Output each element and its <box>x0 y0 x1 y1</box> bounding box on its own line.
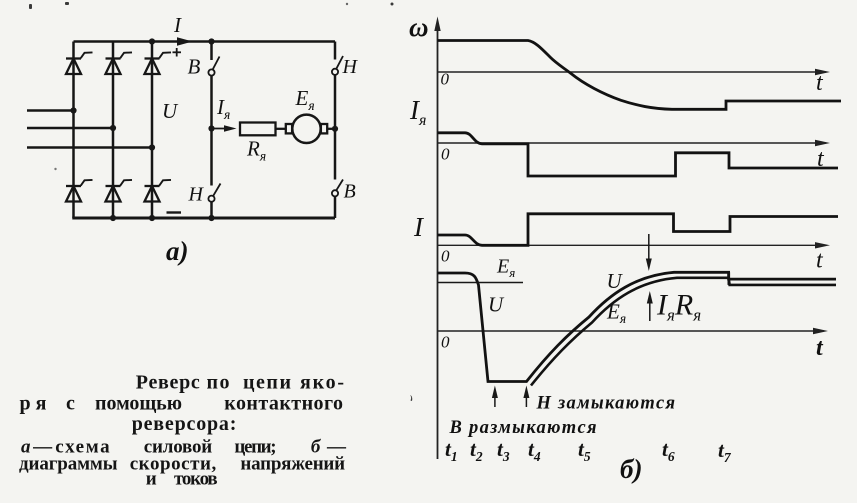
svg-text:t4: t4 <box>528 437 541 464</box>
svg-text:t2: t2 <box>470 437 483 464</box>
svg-text:t: t <box>816 335 824 361</box>
svg-text:яко-: яко- <box>300 372 344 394</box>
svg-text:б): б) <box>620 454 642 484</box>
svg-text:B: B <box>188 55 201 79</box>
svg-text:U: U <box>607 269 624 293</box>
svg-text:Iя: Iя <box>216 95 230 122</box>
svg-text:реверсора:: реверсора: <box>132 413 237 435</box>
svg-text:токов: токов <box>174 468 218 489</box>
svg-text:Eя: Eя <box>295 86 315 113</box>
svg-text:t5: t5 <box>578 437 591 464</box>
svg-text:Реверс: Реверс <box>136 372 200 394</box>
svg-text:0: 0 <box>441 70 450 89</box>
svg-text:Н: Н <box>188 184 205 206</box>
svg-text:В размыкаются: В размыкаются <box>449 418 597 438</box>
svg-text:ря: ря <box>20 393 47 415</box>
svg-text:и: и <box>146 468 157 489</box>
svg-text:0: 0 <box>441 145 450 164</box>
svg-text:Iя: Iя <box>409 95 426 129</box>
svg-text:U: U <box>488 293 505 317</box>
svg-text:напряжений: напряжений <box>240 453 345 474</box>
svg-text:I: I <box>173 13 182 37</box>
svg-text:U: U <box>162 99 179 123</box>
svg-text:t: t <box>816 70 824 96</box>
svg-text:t3: t3 <box>497 437 510 464</box>
svg-text:диаграммы: диаграммы <box>19 453 118 474</box>
svg-text:Н замыкаются: Н замыкаются <box>536 394 676 414</box>
svg-text:Eя: Eя <box>606 300 626 327</box>
svg-text:Eя: Eя <box>496 256 515 281</box>
svg-text:ω: ω <box>409 12 429 42</box>
svg-text:0: 0 <box>441 333 450 352</box>
svg-text:Н: Н <box>342 56 359 78</box>
svg-text:0: 0 <box>441 247 450 266</box>
svg-text:по: по <box>207 372 230 394</box>
svg-text:помощью: помощью <box>95 393 182 415</box>
svg-text:I: I <box>413 212 425 242</box>
svg-text:IяRя: IяRя <box>656 289 701 325</box>
svg-text:а): а) <box>166 236 189 266</box>
svg-text:t7: t7 <box>718 438 732 465</box>
svg-text:В: В <box>344 181 356 203</box>
svg-text:t: t <box>816 248 824 274</box>
svg-text:контактного: контактного <box>224 393 343 415</box>
svg-text:t1: t1 <box>445 437 458 464</box>
svg-text:цепи: цепи <box>243 372 291 394</box>
svg-text:Rя: Rя <box>246 137 266 164</box>
svg-text:t6: t6 <box>662 437 675 464</box>
svg-text:с: с <box>66 393 75 415</box>
